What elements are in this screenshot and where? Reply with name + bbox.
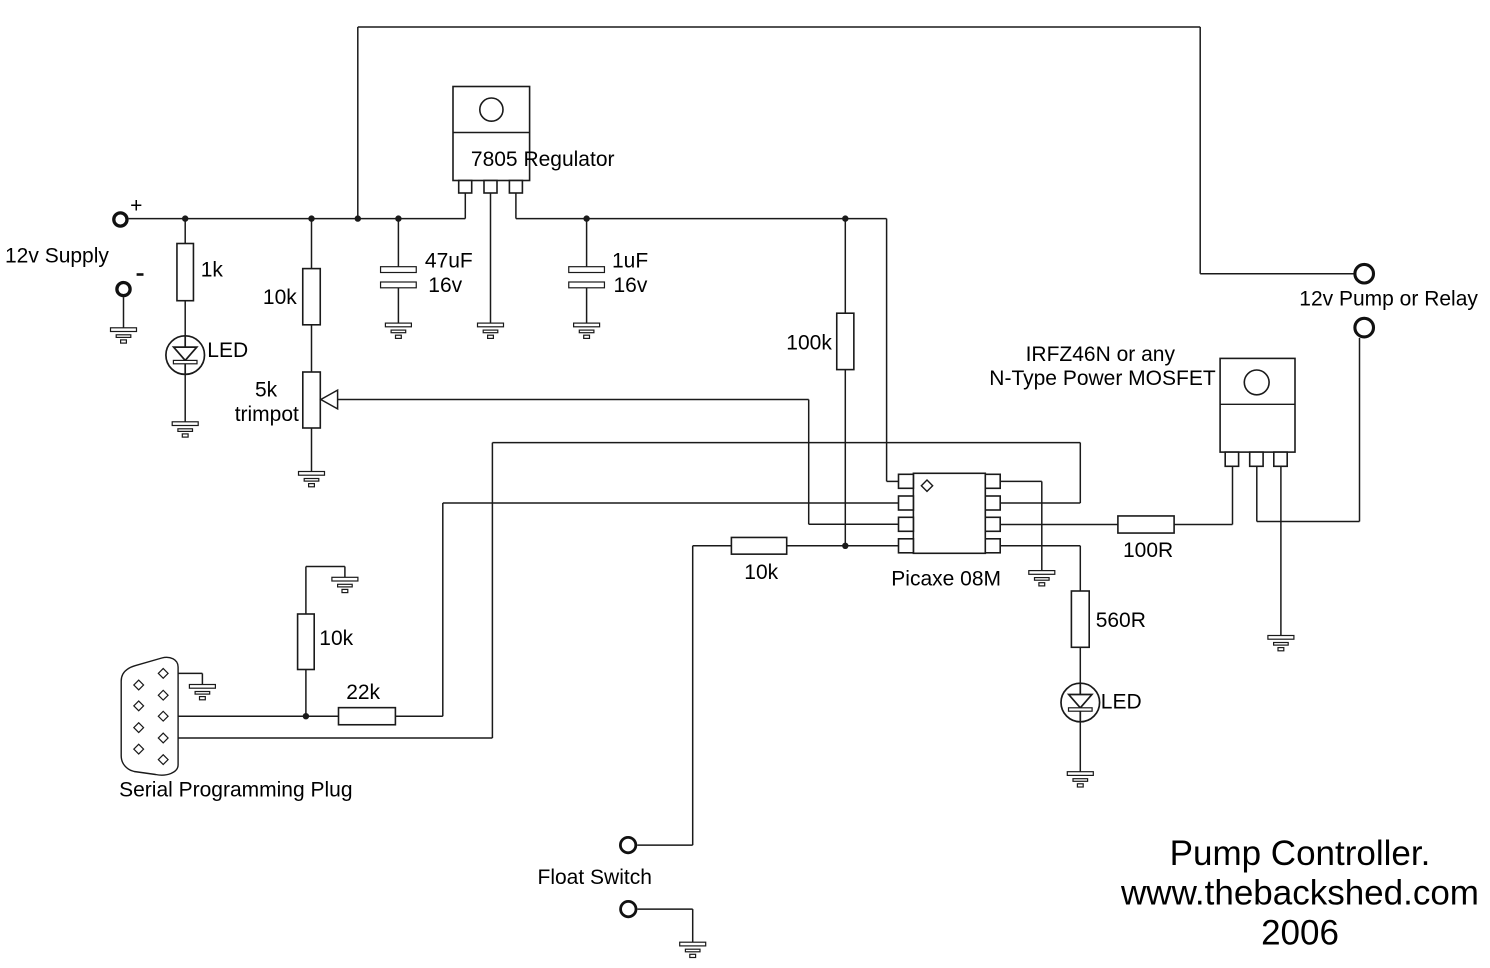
wire float switch bottom wire xyxy=(637,908,692,910)
wire float switch riser xyxy=(692,546,694,845)
ground mosfet source xyxy=(1268,636,1294,651)
wire pump terminal 2 down wire xyxy=(1359,338,1361,522)
svg-text:trimpot: trimpot xyxy=(235,403,299,426)
svg-text:100k: 100k xyxy=(786,331,832,354)
svg-text:Picaxe 08M: Picaxe 08M xyxy=(891,568,1001,591)
ground 7805 middle pin xyxy=(478,323,504,338)
terminal 12v supply plus xyxy=(114,213,127,226)
wire 10k lower bottom wire xyxy=(305,670,307,717)
junction 10k lower on 22k wire xyxy=(303,713,309,719)
wire mosfet drain pin wire xyxy=(1256,466,1258,521)
wire 10k horizontal left wire xyxy=(693,545,732,547)
wire 1k to LED wire xyxy=(184,301,186,336)
resistor R 10k lower xyxy=(298,614,315,670)
ground supply minus xyxy=(111,328,137,343)
wire serial riser to picaxe pin7 net xyxy=(491,443,493,738)
svg-text:1uF: 1uF xyxy=(612,249,648,272)
junction 100k on rail xyxy=(842,215,848,221)
svg-text:12v Pump or Relay: 12v Pump or Relay xyxy=(1299,288,1478,311)
junction 1k top on rail xyxy=(182,215,188,221)
ground output LED xyxy=(1067,772,1093,787)
regulator 7805 package xyxy=(453,87,530,194)
wire mosfet source pin wire to ground xyxy=(1280,466,1282,635)
svg-text:LED: LED xyxy=(1101,690,1142,713)
wire mosfet gate riser xyxy=(1232,466,1234,524)
resistor R 10k horizontal xyxy=(731,537,786,554)
junction 1uF on rail xyxy=(583,215,589,221)
wire 560R to LED wire xyxy=(1079,647,1081,683)
ground power LED xyxy=(172,422,198,437)
wire picaxe pin8 wire xyxy=(1000,480,1042,482)
ground trimpot xyxy=(299,472,325,487)
wire picaxe pin4 wire xyxy=(787,545,899,547)
wire picaxe pin6 wire xyxy=(1000,524,1118,526)
wire float switch ground stub xyxy=(692,909,694,942)
wire picaxe pin5 down wire xyxy=(1079,546,1081,591)
wire picaxe pin1 wire xyxy=(887,480,899,482)
wire 100R right wire to gate xyxy=(1174,524,1232,526)
ground float switch xyxy=(680,942,706,957)
junction top riser on rail xyxy=(355,215,361,221)
LED power LED xyxy=(166,336,205,375)
svg-text:22k: 22k xyxy=(346,681,380,704)
wire 10k upper top wire xyxy=(311,219,313,269)
wire 10k lower ground stub xyxy=(344,567,346,578)
LED output LED xyxy=(1061,683,1100,722)
wire 10k to trimpot wire xyxy=(311,325,313,372)
wire riser from rail to top wire xyxy=(357,27,359,219)
wire 10k lower ground horizontal xyxy=(306,566,345,568)
svg-text:2006: 2006 xyxy=(1261,914,1339,953)
resistor R 10k upper xyxy=(303,269,321,325)
resistor R 100R xyxy=(1118,516,1174,533)
connector serial programming plug DB9 xyxy=(121,657,178,775)
wire picaxe pin5 wire xyxy=(1000,545,1081,547)
wire 22k right wire xyxy=(395,715,442,717)
wire rail end down riser to picaxe pin1 xyxy=(886,219,888,482)
ground 1uF xyxy=(574,323,600,338)
svg-text:Serial Programming Plug: Serial Programming Plug xyxy=(119,779,352,802)
wire 1uF bottom wire xyxy=(586,288,588,323)
junction 47uF on rail xyxy=(395,215,401,221)
wire picaxe pin7 wire xyxy=(1000,502,1081,504)
wire picaxe pin8 ground riser xyxy=(1041,481,1043,570)
svg-text:www.thebackshed.com: www.thebackshed.com xyxy=(1120,874,1479,913)
terminal 12v supply minus xyxy=(117,283,130,296)
wire 47uF top wire xyxy=(397,219,399,267)
terminal pump 2 xyxy=(1355,318,1374,337)
svg-text:Float Switch: Float Switch xyxy=(538,866,652,889)
junction 10k top on rail xyxy=(308,215,314,221)
wire picaxe pin7 riser xyxy=(1079,443,1081,503)
wire drain horizontal wire xyxy=(1257,521,1360,523)
wire 1k top wire xyxy=(184,219,186,244)
wire serial pin4 wire xyxy=(168,737,493,739)
trimpot 5k xyxy=(303,372,338,428)
wire 47uF bottom wire xyxy=(397,288,399,323)
ground 47uF xyxy=(385,323,411,338)
svg-text:16v: 16v xyxy=(614,274,648,297)
junction 100k bottom on pin4 wire xyxy=(842,543,848,549)
svg-text:16v: 16v xyxy=(428,274,462,297)
wire float switch top wire xyxy=(637,844,693,846)
wire 12V rail left segment xyxy=(129,218,466,220)
capacitor C 1uF xyxy=(569,267,605,288)
svg-text:47uF: 47uF xyxy=(425,249,473,272)
IC U1 Picaxe 08M xyxy=(899,473,1001,553)
svg-text:5k: 5k xyxy=(255,379,278,402)
transistor IRFZ46N MOSFET package xyxy=(1220,358,1295,466)
wire 10k lower top wire xyxy=(305,567,307,615)
svg-text:IRFZ46N or any: IRFZ46N or any xyxy=(1026,343,1176,366)
ground 10k lower xyxy=(332,577,358,592)
wire LED to ground wire xyxy=(184,374,186,422)
capacitor C 47uF xyxy=(381,267,417,288)
resistor R 22k xyxy=(339,708,396,725)
svg-text:100R: 100R xyxy=(1123,539,1173,562)
ground picaxe pin8 xyxy=(1029,571,1055,586)
ground serial plug pin1 xyxy=(189,685,215,700)
resistor R 100k xyxy=(837,313,854,369)
svg-text:560R: 560R xyxy=(1096,609,1146,632)
wire serial pin3 wire to 22k xyxy=(168,715,339,717)
svg-text:+: + xyxy=(130,194,142,217)
label minus sign xyxy=(137,273,144,276)
wire serial pin1 wire xyxy=(168,672,203,674)
svg-text:1k: 1k xyxy=(201,259,224,282)
wire trimpot to ground wire xyxy=(311,428,313,472)
wire 7805 pin1 wire xyxy=(464,193,466,219)
wire 7805 pin3 wire xyxy=(515,193,517,219)
svg-text:10k: 10k xyxy=(263,286,297,309)
wire trimpot wiper wire horizontal xyxy=(338,399,809,401)
svg-text:12v Supply: 12v Supply xyxy=(5,245,109,268)
terminal float switch 2 xyxy=(621,901,636,916)
svg-text:10k: 10k xyxy=(744,561,778,584)
wire horizontal into pump terminal 1 xyxy=(1200,273,1353,275)
wire picaxe pin2 wire xyxy=(443,502,899,504)
wire serial pin1 ground stub xyxy=(201,673,203,684)
terminal pump 1 xyxy=(1355,264,1374,283)
terminal float switch 1 xyxy=(620,837,635,852)
resistor R 560R xyxy=(1071,591,1089,647)
wire picaxe pin3 wire xyxy=(809,523,899,525)
wire 100k bottom wire xyxy=(844,370,846,546)
svg-text:N-Type Power MOSFET: N-Type Power MOSFET xyxy=(989,367,1216,390)
svg-text:LED: LED xyxy=(207,339,248,362)
svg-text:7805 Regulator: 7805 Regulator xyxy=(471,148,615,171)
wire down segment to pump terminal xyxy=(1199,27,1201,274)
wire 5V rail right segment xyxy=(516,218,887,220)
wire picaxe pin7 long wire xyxy=(492,442,1080,444)
wire 22k riser xyxy=(442,503,444,716)
wire LED2 to ground wire xyxy=(1079,722,1081,772)
wire 1uF top wire xyxy=(586,219,588,267)
wire minus terminal to ground wire xyxy=(123,297,125,328)
svg-text:10k: 10k xyxy=(319,627,353,650)
wire top 12V wire to pump xyxy=(358,26,1200,28)
resistor R 1k xyxy=(177,244,194,301)
svg-text:Pump Controller.: Pump Controller. xyxy=(1170,834,1431,873)
wire 7805 pin2 ground wire xyxy=(490,193,492,323)
wire wiper wire down riser xyxy=(808,400,810,525)
wire 100k top wire xyxy=(844,219,846,314)
